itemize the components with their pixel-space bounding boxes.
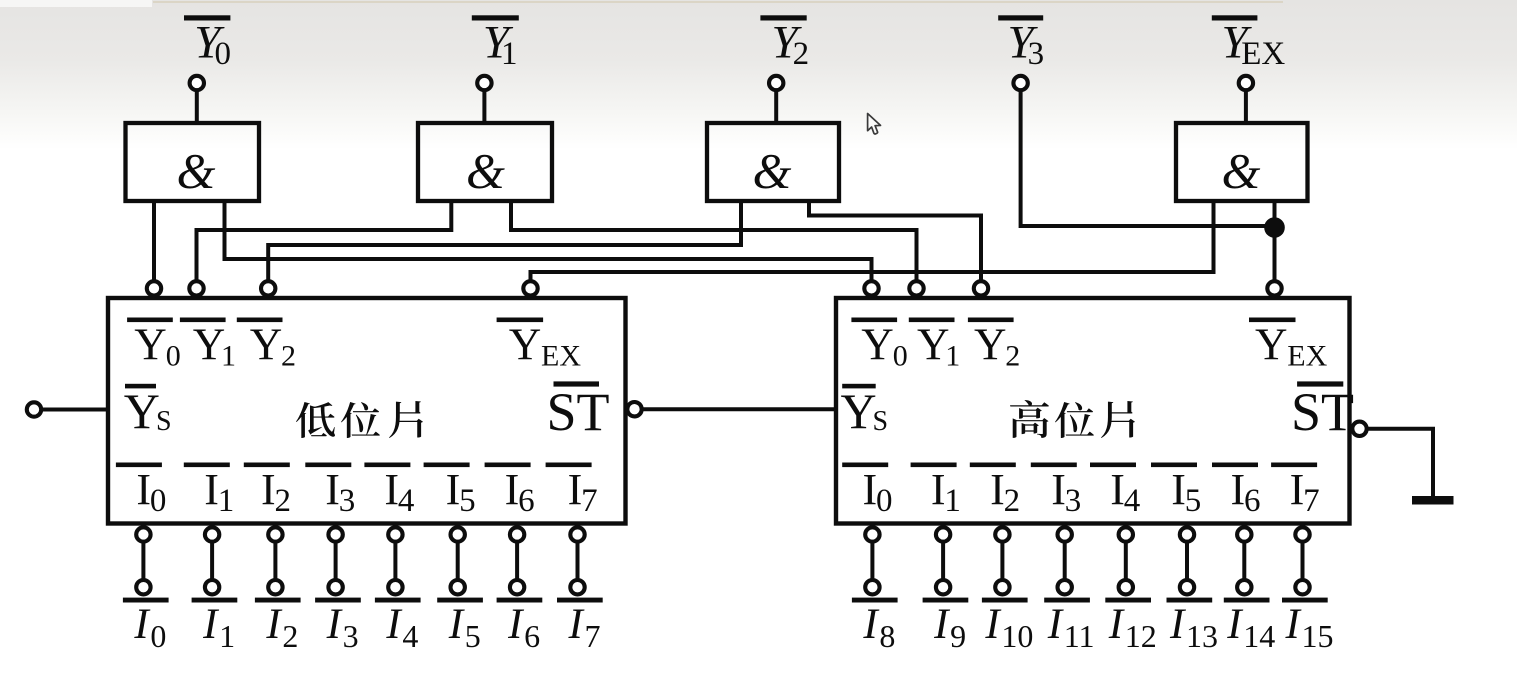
input terminal label I5 (italic): [448, 601, 481, 654]
svg-text:1: 1: [218, 483, 235, 519]
svg-text:I: I: [136, 465, 151, 514]
input terminal I7: pin circle, wire, terminal circle and bar: [557, 527, 603, 602]
low chip top pin circle YEX: [523, 281, 537, 295]
input terminal I0: pin circle, wire, terminal circle and bar: [123, 527, 169, 602]
svg-text:I: I: [505, 465, 520, 514]
input terminal I2: pin circle, wire, terminal circle and bar: [255, 527, 301, 602]
high chip pin label I0-bar: [842, 463, 892, 520]
high chip pin label I2-bar: [970, 463, 1020, 520]
svg-text:I: I: [1047, 601, 1064, 648]
svg-text:7: 7: [581, 483, 598, 519]
svg-text:I: I: [133, 601, 150, 648]
svg-text:&: &: [177, 142, 216, 198]
high chip pin label Y1-bar: [909, 318, 960, 373]
svg-text:Y: Y: [124, 383, 160, 439]
svg-text:9: 9: [950, 618, 966, 654]
svg-text:I: I: [446, 465, 461, 514]
input terminal label I0 (italic): [133, 601, 166, 654]
svg-text:I: I: [984, 601, 1001, 648]
low chip (低位片) box: [108, 298, 626, 524]
low chip top pin circle Y0: [147, 281, 161, 295]
low chip top pin circle Y2: [261, 281, 275, 295]
high chip pin label I4-bar: [1090, 463, 1140, 520]
svg-text:Y: Y: [250, 320, 282, 370]
svg-text:Y: Y: [974, 320, 1007, 370]
terminal circle Y1: [477, 76, 491, 90]
svg-text:I: I: [204, 465, 219, 514]
input terminal I15: pin circle, wire, terminal circle and bar: [1282, 527, 1328, 602]
svg-text:0: 0: [150, 618, 166, 654]
high chip pin label I7-bar: [1271, 463, 1320, 520]
svg-text:I: I: [990, 465, 1005, 514]
svg-text:12: 12: [1125, 618, 1157, 654]
low chip ST pin circle: [627, 402, 641, 416]
wire gate G2 left input to low chip Y1 pin (bus line A left): [197, 201, 452, 282]
svg-text:7: 7: [1303, 483, 1320, 519]
high chip pin label Y2-bar: [968, 318, 1020, 373]
input terminal label I4 (italic): [385, 601, 418, 654]
low chip pin label ST-bar: [547, 381, 610, 442]
svg-text:2: 2: [281, 340, 296, 373]
svg-text:5: 5: [465, 618, 481, 654]
high chip top pin circle Y0: [864, 281, 878, 295]
svg-text:I: I: [863, 465, 878, 514]
high chip ST pin circle: [1352, 422, 1366, 436]
input terminal label I14 (italic): [1226, 601, 1275, 654]
wire YEX terminal to gate G4: [1244, 91, 1248, 126]
svg-text:15: 15: [1302, 618, 1334, 654]
mouse cursor: [868, 114, 881, 135]
svg-text:6: 6: [518, 483, 535, 519]
svg-text:Y: Y: [134, 320, 167, 370]
low chip pin label I6-bar: [485, 463, 535, 520]
low chip pin label I2-bar: [244, 463, 291, 520]
svg-text:6: 6: [524, 618, 540, 654]
input terminal I13: pin circle, wire, terminal circle and bar: [1167, 527, 1213, 602]
input terminal I9: pin circle, wire, terminal circle and bar: [923, 527, 969, 602]
high chip top pin circle Y2: [974, 281, 988, 295]
wire Y0 terminal to gate G1: [195, 91, 199, 125]
high chip top pin circle Y1: [909, 281, 923, 295]
svg-text:0: 0: [893, 340, 908, 373]
input terminal label I9 (italic): [933, 601, 966, 654]
input terminal label I7 (italic): [568, 601, 601, 654]
svg-text:1: 1: [219, 618, 235, 654]
svg-text:2: 2: [1004, 483, 1021, 519]
low chip pin label Y2-bar: [237, 318, 296, 373]
svg-text:I: I: [325, 465, 340, 514]
input terminal label I12 (italic): [1108, 601, 1157, 654]
svg-text:8: 8: [879, 618, 895, 654]
svg-text:2: 2: [275, 483, 292, 519]
svg-text:10: 10: [1001, 618, 1033, 654]
wire YS terminal to low chip: [43, 408, 109, 412]
wire gate G1 left input to low chip Y0 pin: [152, 201, 156, 282]
svg-text:14: 14: [1243, 618, 1275, 654]
high chip pin label I1-bar: [911, 463, 961, 520]
svg-text:I: I: [507, 601, 524, 648]
high chip pin label Y0-bar: [851, 318, 907, 373]
wire gate G1 right input to high chip Y0 pin (bus line C): [225, 201, 872, 282]
svg-text:I: I: [1171, 465, 1186, 514]
high chip name text 高位片: [1010, 400, 1135, 438]
input terminal I6: pin circle, wire, terminal circle and bar: [497, 527, 543, 602]
output terminal Y3-bar label: [998, 15, 1044, 72]
svg-text:6: 6: [1244, 483, 1261, 519]
terminal circle Y3: [1013, 76, 1027, 90]
low chip pin label YEX-bar: [497, 318, 582, 373]
high chip pin label YEX-bar: [1249, 318, 1328, 373]
svg-text:Y: Y: [841, 383, 877, 439]
AND gate G4 symbol &: [1222, 142, 1261, 198]
svg-text:3: 3: [1028, 36, 1045, 72]
svg-text:Y: Y: [509, 320, 542, 370]
input terminal I12: pin circle, wire, terminal circle and bar: [1105, 527, 1151, 602]
wire high chip ST to ground: [1368, 429, 1433, 497]
high chip pin label I3-bar: [1031, 463, 1081, 520]
svg-text:2: 2: [793, 36, 810, 72]
svg-text:EX: EX: [541, 340, 581, 373]
svg-text:I: I: [202, 601, 219, 648]
input terminal I3: pin circle, wire, terminal circle and bar: [315, 527, 361, 602]
low chip pin label I3-bar: [305, 463, 355, 520]
low chip pin label Y1-bar: [180, 318, 236, 373]
wire gate G3 right input to high chip Y2 pin: [809, 201, 981, 282]
svg-text:0: 0: [150, 483, 167, 519]
input terminal label I6 (italic): [507, 601, 540, 654]
svg-text:I: I: [1108, 601, 1125, 648]
AND gate G1 symbol &: [177, 142, 216, 198]
high chip top pin circle YEX: [1267, 281, 1281, 295]
svg-text:I: I: [265, 601, 282, 648]
input terminal label I10 (italic): [984, 601, 1033, 654]
svg-text:I: I: [384, 465, 399, 514]
svg-text:7: 7: [585, 618, 601, 654]
wire gate G3 left input to low chip Y2 pin (bus line B): [268, 201, 741, 282]
svg-text:1: 1: [501, 36, 518, 72]
svg-text:13: 13: [1186, 618, 1218, 654]
svg-text:I: I: [326, 601, 343, 648]
svg-text:I: I: [568, 465, 583, 514]
low chip pin label Y0-bar: [127, 318, 181, 373]
svg-text:I: I: [931, 465, 946, 514]
low chip top pin circle Y1: [189, 281, 203, 295]
svg-text:5: 5: [459, 483, 476, 519]
svg-text:0: 0: [215, 36, 232, 72]
input terminal label I13 (italic): [1169, 601, 1218, 654]
svg-text:1: 1: [221, 340, 236, 373]
output terminal YEX-bar label: [1212, 15, 1286, 72]
svg-text:5: 5: [1185, 483, 1202, 519]
svg-text:I: I: [1226, 601, 1243, 648]
input terminal label I11 (italic): [1047, 601, 1095, 654]
ground symbol: [1412, 496, 1454, 505]
high chip pin label I5-bar: [1151, 463, 1201, 520]
low chip name text 低位片: [296, 401, 423, 438]
svg-text:I: I: [933, 601, 950, 648]
svg-text:I: I: [1285, 601, 1302, 648]
low chip pin label I5-bar: [424, 463, 476, 520]
low chip pin label I0-bar: [116, 463, 166, 520]
svg-text:2: 2: [1005, 340, 1020, 373]
input terminal label I2 (italic): [265, 601, 298, 654]
terminal circle Y0: [190, 76, 204, 90]
AND gate G2 box: [418, 123, 552, 201]
svg-text:ST: ST: [1291, 382, 1354, 442]
AND gate G4 box: [1176, 123, 1308, 201]
svg-text:Y: Y: [861, 320, 894, 370]
AND gate G3 symbol &: [753, 142, 792, 198]
output terminal Y0-bar label: [184, 15, 231, 72]
svg-text:3: 3: [343, 618, 359, 654]
svg-text:0: 0: [876, 483, 893, 519]
svg-text:3: 3: [339, 483, 356, 519]
AND gate G2 symbol &: [466, 142, 505, 198]
svg-text:I: I: [385, 601, 402, 648]
input terminal label I8 (italic): [862, 601, 895, 654]
low chip pin label I1-bar: [184, 463, 235, 520]
svg-text:EX: EX: [1241, 36, 1285, 72]
input terminal label I3 (italic): [326, 601, 359, 654]
wire Y3 terminal down and right to junction: [1021, 91, 1275, 227]
svg-text:I: I: [1231, 465, 1246, 514]
input terminal I5: pin circle, wire, terminal circle and bar: [437, 527, 483, 602]
low chip pin label I4-bar: [364, 463, 414, 520]
svg-text:4: 4: [398, 483, 415, 519]
svg-text:I: I: [448, 601, 465, 648]
wire gate G4 left input to low chip YEX pin (bus line D): [531, 201, 1214, 282]
svg-text:S: S: [156, 406, 172, 437]
svg-text:4: 4: [1124, 483, 1141, 519]
svg-text:4: 4: [402, 618, 418, 654]
output terminal Y1-bar label: [472, 15, 519, 72]
wire low chip ST to high chip YS (cascade): [643, 407, 836, 411]
low chip pin label I7-bar: [546, 463, 598, 520]
svg-text:I: I: [862, 601, 879, 648]
wire gate G4 right input to high chip YEX pin: [1273, 201, 1277, 282]
input terminal I8: pin circle, wire, terminal circle and bar: [852, 527, 898, 602]
svg-text:I: I: [1051, 465, 1066, 514]
junction dot on YEX/Y3 net: [1264, 217, 1285, 238]
AND gate G3 box: [707, 123, 839, 201]
svg-text:&: &: [753, 142, 792, 198]
svg-text:&: &: [466, 142, 505, 198]
svg-text:11: 11: [1064, 618, 1095, 654]
input terminal I10: pin circle, wire, terminal circle and bar: [982, 527, 1028, 602]
low chip pin label YS-bar: [124, 383, 172, 439]
svg-text:0: 0: [166, 340, 181, 373]
svg-text:ST: ST: [547, 382, 610, 442]
wire Y1 terminal to gate G2: [482, 91, 486, 125]
AND gate G1 box: [126, 123, 260, 201]
svg-text:I: I: [1290, 465, 1305, 514]
input terminal I11: pin circle, wire, terminal circle and bar: [1044, 527, 1090, 602]
input terminal label I15 (italic): [1285, 601, 1334, 654]
svg-text:EX: EX: [1287, 340, 1327, 373]
input terminal I4: pin circle, wire, terminal circle and bar: [375, 527, 421, 602]
input terminal I1: pin circle, wire, terminal circle and bar: [192, 527, 238, 602]
svg-text:1: 1: [945, 340, 960, 373]
YS input terminal circle (left): [27, 402, 41, 416]
svg-text:2: 2: [282, 618, 298, 654]
terminal circle Y2: [769, 76, 783, 90]
svg-text:I: I: [261, 465, 276, 514]
svg-text:I: I: [1110, 465, 1125, 514]
svg-text:&: &: [1222, 142, 1261, 198]
high chip pin label I6-bar: [1212, 463, 1261, 520]
svg-text:S: S: [873, 406, 889, 437]
input terminal label I1 (italic): [202, 601, 235, 654]
svg-text:Y: Y: [1255, 320, 1288, 370]
high chip pin label ST-bar: [1291, 381, 1354, 442]
input terminal I14: pin circle, wire, terminal circle and bar: [1224, 527, 1270, 602]
high chip (高位片) box: [836, 298, 1350, 524]
svg-text:1: 1: [944, 483, 961, 519]
svg-text:I: I: [1169, 601, 1186, 648]
wire Y2 terminal to gate G3: [774, 91, 778, 126]
terminal circle YEX: [1239, 76, 1253, 90]
wire gate G2 right input to high chip Y1 pin (bus line A right): [511, 201, 917, 282]
svg-text:I: I: [568, 601, 585, 648]
svg-text:3: 3: [1065, 483, 1082, 519]
high chip pin label YS-bar: [841, 383, 889, 439]
output terminal Y2-bar label: [760, 15, 809, 72]
